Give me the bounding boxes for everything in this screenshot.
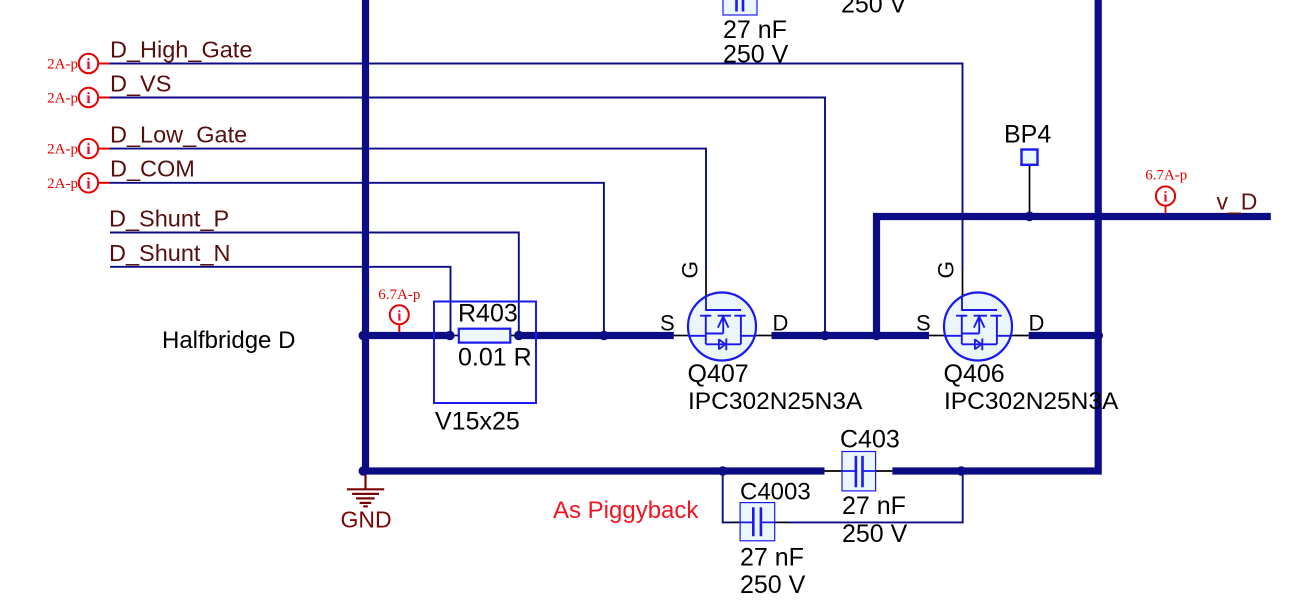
- pin C403 left: [825, 470, 843, 472]
- capacitor top piggyback (cut off): [723, 0, 757, 15]
- pin C403 right: [876, 470, 893, 472]
- svg-text:As Piggyback: As Piggyback: [553, 497, 699, 524]
- svg-text:S: S: [660, 311, 675, 336]
- pin Q406 gate: [962, 270, 964, 297]
- testpoint BP4: [1022, 150, 1038, 165]
- wire C4003 branch left: [723, 471, 731, 522]
- varistor outline V15x25: [434, 302, 536, 404]
- svg-text:V15x25: V15x25: [435, 408, 520, 436]
- port D_High_Gate 2A-p: [47, 54, 109, 73]
- wire thick Q406 drain to right bus: [1029, 332, 1099, 339]
- pin C4003 left: [731, 521, 740, 523]
- svg-text:i: i: [86, 141, 91, 158]
- resistor R403: [459, 329, 511, 343]
- wire D_Shunt_P: [110, 233, 519, 336]
- svg-text:IPC302N25N3A: IPC302N25N3A: [944, 388, 1119, 415]
- svg-text:D: D: [1029, 311, 1045, 336]
- port D_Low_Gate 2A-p: [47, 139, 109, 158]
- junction node dots: [359, 212, 1103, 476]
- svg-text:2A-p: 2A-p: [47, 57, 78, 73]
- svg-text:2A-p: 2A-p: [47, 91, 78, 107]
- svg-text:D_Low_Gate: D_Low_Gate: [110, 122, 247, 148]
- svg-text:6.7A-p: 6.7A-p: [378, 287, 420, 303]
- svg-text:D_COM: D_COM: [110, 156, 195, 182]
- svg-text:250 V: 250 V: [723, 40, 789, 68]
- wire D_Low_Gate: [110, 149, 707, 270]
- pin BP4: [1029, 165, 1031, 213]
- wire thick source row segment 2: [520, 332, 674, 339]
- svg-text:250 V: 250 V: [841, 0, 907, 19]
- svg-text:Halfbridge D: Halfbridge D: [162, 327, 295, 354]
- port D_COM 2A-p: [47, 173, 109, 192]
- wire C4003 branch right: [789, 471, 963, 522]
- svg-text:i: i: [1163, 190, 1167, 206]
- svg-text:G: G: [934, 261, 959, 279]
- svg-text:v_D: v_D: [1217, 189, 1258, 215]
- svg-text:S: S: [916, 311, 931, 336]
- svg-text:Q406: Q406: [944, 360, 1005, 388]
- svg-text:2A-p: 2A-p: [47, 142, 78, 158]
- pin Q407 gate: [705, 270, 707, 297]
- svg-text:27 nF: 27 nF: [740, 543, 804, 571]
- pin Q406 source: [929, 335, 945, 337]
- svg-text:i: i: [86, 175, 91, 192]
- pin Q407 drain: [756, 335, 772, 337]
- svg-text:D_High_Gate: D_High_Gate: [110, 37, 252, 63]
- current probe 6.7A-p at v_D: [1145, 168, 1187, 214]
- pin Q407 source: [674, 335, 689, 337]
- capacitor C403: [842, 452, 876, 491]
- svg-text:R403: R403: [458, 300, 518, 328]
- wire thick phase node segment: [772, 332, 930, 339]
- svg-text:27 nF: 27 nF: [842, 492, 906, 520]
- svg-text:C4003: C4003: [740, 478, 811, 505]
- svg-text:i: i: [86, 90, 91, 107]
- wire D_Shunt_N: [110, 267, 451, 336]
- capacitor C4003: [740, 503, 775, 541]
- svg-text:D_VS: D_VS: [110, 71, 171, 97]
- svg-text:Q407: Q407: [688, 360, 749, 388]
- pin R403 left: [448, 335, 459, 337]
- svg-text:250 V: 250 V: [842, 520, 908, 548]
- svg-text:2A-p: 2A-p: [47, 176, 78, 192]
- svg-text:BP4: BP4: [1004, 121, 1051, 149]
- wire D_COM: [110, 183, 604, 336]
- svg-text:i: i: [397, 309, 401, 325]
- svg-text:IPC302N25N3A: IPC302N25N3A: [688, 388, 863, 415]
- wire D_VS: [110, 98, 826, 336]
- wire thick v_D rail: [877, 217, 1271, 336]
- wire thick GND rail right and right bus: [892, 0, 1098, 471]
- current probe 6.7A-p at shunt: [378, 287, 420, 332]
- transistor Q406: [944, 293, 1012, 361]
- svg-text:i: i: [86, 56, 91, 73]
- svg-text:D_Shunt_N: D_Shunt_N: [109, 240, 231, 266]
- wire thick left bus and GND rail: [366, 0, 825, 471]
- pin R403 right: [510, 335, 520, 337]
- svg-text:C403: C403: [840, 426, 900, 454]
- svg-text:6.7A-p: 6.7A-p: [1145, 168, 1187, 184]
- svg-text:0.01 R: 0.01 R: [458, 343, 532, 371]
- wire D_High_Gate: [110, 64, 963, 271]
- svg-text:GND: GND: [341, 507, 392, 533]
- wire thick source row segment 1: [366, 332, 449, 339]
- svg-text:250 V: 250 V: [740, 571, 806, 599]
- pin C4003 right: [775, 521, 789, 523]
- pin Q406 drain: [1012, 335, 1029, 337]
- ground symbol GND: [347, 475, 384, 507]
- svg-text:G: G: [678, 261, 703, 279]
- svg-text:D: D: [773, 311, 789, 336]
- svg-text:D_Shunt_P: D_Shunt_P: [109, 206, 229, 232]
- port D_VS 2A-p: [47, 88, 109, 107]
- transistor Q407: [688, 293, 756, 361]
